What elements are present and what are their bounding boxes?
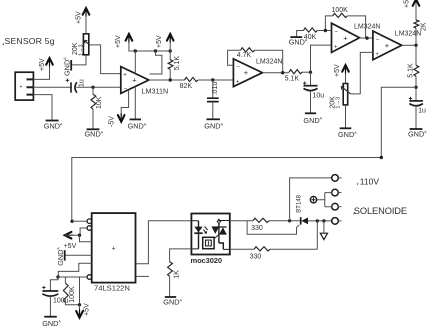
wire U1 V+ pin — [134, 51, 136, 74]
capacitor C2 .01u — [212, 80, 214, 98]
svg-text:+: + — [123, 72, 127, 78]
svg-text:+: + — [385, 41, 390, 50]
svg-text:330: 330 — [251, 225, 263, 232]
op-amp U3 LM324N — [332, 23, 360, 52]
wire Q output to optocoupler — [136, 221, 192, 264]
pin A2 (bubble) — [80, 228, 87, 235]
svg-text:74LS122N: 74LS122N — [94, 283, 130, 292]
wire moc bottom output — [230, 248, 254, 250]
node U3 output — [365, 36, 368, 39]
svg-text:+5V: +5V — [76, 11, 83, 24]
ground (sensor) — [46, 120, 59, 122]
svg-text:100K: 100K — [332, 7, 349, 14]
wire U2 output — [262, 72, 289, 74]
svg-text:10u: 10u — [313, 93, 325, 100]
pad 2 — [332, 189, 339, 196]
node V+ rail — [134, 49, 137, 52]
svg-text:LM311N: LM311N — [142, 86, 169, 95]
wire cap to node — [76, 86, 121, 88]
resistor R6 40K — [297, 31, 332, 37]
+5V rail above U1 — [129, 35, 170, 52]
svg-text:LM324N: LM324N — [354, 23, 380, 30]
node corner junction — [380, 156, 383, 159]
pin A1 (bubble) — [72, 220, 87, 222]
IC U5 74LS122N — [92, 213, 136, 283]
resistor R3 82K — [185, 77, 199, 81]
resistor R5 5.1K series — [289, 70, 302, 74]
svg-text:1→3: 1→3 — [79, 44, 85, 56]
svg-text:SENSOR 5g: SENSOR 5g — [5, 36, 55, 46]
wire BT148 anode to pad — [308, 220, 332, 222]
svg-text:1u: 1u — [79, 79, 86, 87]
node U4 output — [414, 44, 417, 47]
wire pot1 bottom to GND — [72, 55, 86, 65]
node junction at R 10K — [91, 86, 94, 89]
wire U1 balance pins — [150, 51, 162, 74]
+5V arrow (sensor) — [46, 58, 53, 65]
+5V arrow (pullup) — [169, 35, 171, 52]
wire pot2 bottom to GND — [345, 105, 347, 128]
svg-text:LM324N: LM324N — [256, 59, 282, 66]
pin CLR wiring — [58, 263, 91, 277]
node junction (feedback takeoff) — [414, 86, 417, 89]
wire moc top output — [230, 220, 253, 222]
svg-text:5.1K: 5.1K — [408, 63, 415, 78]
resistor R13 330 (bottom) — [254, 247, 270, 251]
op-amp U1 LM311N — [121, 67, 149, 94]
pin B1 — [80, 235, 92, 242]
svg-text:5.1K: 5.1K — [285, 76, 300, 83]
svg-text:1u: 1u — [418, 108, 426, 115]
wire U1 GND pin — [134, 87, 136, 120]
svg-text:10K: 10K — [96, 96, 103, 109]
node solenoid return — [316, 219, 319, 222]
earth symbol — [323, 221, 325, 233]
svg-text:110V: 110V — [360, 176, 380, 186]
+5V arrow (IC inputs, pointing left) — [65, 232, 72, 239]
svg-text:+: + — [244, 68, 249, 77]
svg-text:4.7K: 4.7K — [237, 52, 252, 59]
wire to U3 + input — [311, 45, 332, 72]
svg-text:+5V: +5V — [334, 64, 341, 77]
capacitor C5 100u (polarized) — [50, 277, 58, 291]
ground (IC, rotated) — [64, 250, 66, 260]
svg-text:BT148: BT148 — [296, 194, 302, 212]
pin Qbar stub — [136, 275, 150, 277]
capacitor C3 10u (polarized) — [310, 72, 312, 85]
wire U4 + input to pot2 wiper — [351, 52, 373, 94]
capacitor C1 1u (series, polarized) — [70, 82, 72, 92]
svg-text:−: − — [124, 87, 128, 93]
bracket wires — [317, 193, 332, 207]
feedback resistor R7 100K — [325, 16, 365, 38]
resistor R1 10K — [92, 87, 94, 129]
svg-text:SOLENOIDE: SOLENOIDE — [354, 206, 407, 216]
svg-text:-5V: -5V — [109, 116, 116, 127]
resistor R2 5.1K pullup — [169, 51, 171, 80]
node balance tap — [154, 49, 157, 52]
ground (U1) — [130, 118, 141, 120]
+5V arrow (down, RC) — [79, 305, 81, 318]
ground (1u) — [410, 128, 423, 130]
wire U4 output — [402, 44, 416, 46]
svg-text:moc3020: moc3020 — [191, 256, 222, 265]
svg-text:LM324N: LM324N — [395, 30, 421, 37]
svg-text:+5V: +5V — [404, 0, 411, 8]
svg-text:330: 330 — [250, 253, 262, 260]
+5V arrow (pot1) — [83, 8, 90, 15]
LED inside U6 — [198, 221, 200, 249]
pad 3 — [332, 203, 339, 210]
light arrows inside U6 — [203, 226, 207, 233]
svg-text:+: + — [112, 246, 116, 253]
node junction (110V riser) — [288, 219, 291, 222]
svg-text:+5V: +5V — [39, 58, 46, 71]
svg-text:2K: 2K — [421, 22, 428, 31]
ground (pot1, rotated) — [70, 60, 72, 71]
pin CEXT (bubble) — [58, 276, 87, 278]
wire U1 V- pin to -5V — [121, 90, 128, 116]
wire pot1 top to +5V — [85, 14, 87, 34]
pad 4 (solenoid) — [332, 218, 339, 225]
svg-text:+: + — [334, 44, 338, 50]
wire down to lower 330 — [316, 221, 318, 249]
svg-text:−: − — [236, 64, 240, 70]
resistor R8 2K — [414, 20, 419, 28]
wire CEXT riser — [79, 277, 81, 305]
node RC +5V — [78, 303, 81, 306]
svg-text:100u: 100u — [53, 298, 69, 305]
triac inside U6 — [212, 227, 227, 234]
resistor R9 5.1K — [415, 45, 417, 87]
wire sensor pin2 to C 1u — [33, 86, 70, 88]
svg-text:+5V: +5V — [83, 303, 90, 316]
svg-text:−: − — [334, 30, 338, 36]
ground (R 10K) — [87, 128, 100, 130]
node U2 output — [281, 71, 284, 74]
svg-text:+5V: +5V — [115, 35, 122, 48]
wire sensor pin1 to +5V — [33, 64, 49, 79]
feedback resistor R4 4.7K — [228, 50, 283, 72]
wire sensor pin3 to GND — [33, 95, 52, 120]
svg-text:1→3: 1→3 — [336, 97, 342, 109]
resistor R10 100K — [64, 277, 66, 283]
node junction .01u — [211, 78, 214, 81]
wire pot1 wiper to op-amp + input — [90, 45, 121, 74]
node earth tap — [322, 219, 325, 222]
potentiometer P1 20K — [83, 34, 88, 55]
svg-text:100K: 100K — [69, 286, 76, 303]
svg-text:1K: 1K — [173, 270, 180, 279]
svg-text:+5V: +5V — [156, 35, 163, 48]
node output junction — [169, 78, 172, 81]
wire pot2 top to +5V — [345, 71, 347, 84]
gate loop wire — [247, 221, 299, 235]
node junction RC — [56, 275, 59, 278]
node pullup top — [169, 49, 172, 52]
wire 82K to U2 — [198, 79, 233, 81]
svg-text:5.1K: 5.1K — [174, 56, 181, 71]
node junction input A1 — [70, 220, 73, 223]
capacitor C4 1u (polarized) — [415, 87, 417, 100]
svg-text:+: + — [375, 52, 379, 58]
wire long feedback run — [72, 87, 416, 221]
svg-text:+: + — [20, 84, 23, 90]
+5V arrow (top right, clipped) — [415, 1, 417, 20]
potentiometer P2 20K — [343, 84, 348, 105]
resistor R11 1K — [170, 249, 192, 262]
op-amp U4 LM324N — [373, 31, 402, 60]
svg-text:−: − — [376, 37, 380, 43]
wire U1 output — [149, 79, 185, 81]
wire U3 out to U4 - input — [360, 37, 373, 39]
node U3 inverting input — [324, 29, 327, 32]
ground (10u) — [305, 112, 316, 114]
ground (pot2) — [340, 127, 352, 129]
pad 1 (110V) — [332, 175, 339, 182]
connector J1 sensor — [15, 72, 33, 100]
ground (1K) — [165, 296, 176, 298]
wire riser to 110V pad — [290, 178, 332, 221]
ground (100u) — [44, 316, 57, 318]
resistor R12 330 (top) — [253, 218, 269, 222]
svg-text:82K: 82K — [180, 83, 193, 90]
target circle with cross — [310, 197, 316, 203]
ground (.01u) — [207, 118, 220, 120]
svg-text:.01u: .01u — [212, 82, 219, 96]
svg-text:+: + — [236, 80, 240, 86]
ground (40K, overlapping) — [290, 36, 302, 38]
op-amp U2 LM324N — [233, 59, 262, 87]
node junction 10u — [309, 71, 312, 74]
svg-text:+: + — [132, 75, 137, 84]
node +5V tie — [78, 234, 81, 237]
thyristor Q1 BT148 — [300, 217, 302, 224]
svg-text:+5V: +5V — [64, 243, 77, 250]
-5V arrow down — [118, 115, 125, 122]
optocoupler U6 moc3020 — [191, 214, 229, 255]
pin GND — [66, 254, 92, 256]
gate + DIP icon inside U6 — [215, 235, 219, 239]
svg-text:+: + — [343, 33, 348, 42]
